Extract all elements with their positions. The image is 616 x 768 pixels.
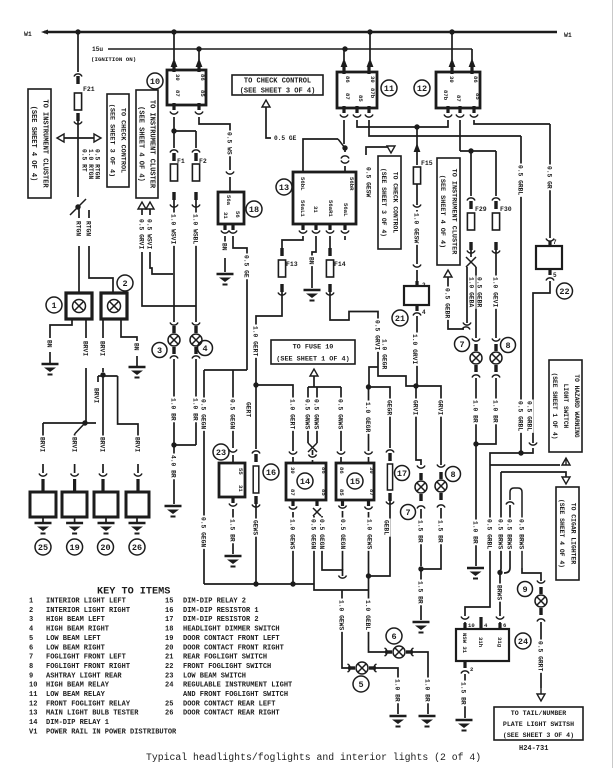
connector	[413, 265, 421, 268]
connector	[341, 156, 349, 159]
interior light right E2 bulb	[108, 300, 121, 313]
label 1.0 GERT	[252, 325, 259, 358]
connector	[280, 248, 283, 256]
wire BRVI rail	[43, 422, 96, 424]
connector	[386, 450, 394, 453]
item circle 8 upper	[501, 338, 516, 353]
svg-text:21: 21	[395, 314, 405, 324]
connector	[289, 452, 297, 455]
label 0.5 WSVI	[146, 218, 153, 251]
svg-text:0.5 GE: 0.5 GE	[243, 255, 250, 278]
label 0.5 GRBL	[517, 400, 524, 433]
label 1.0 GERT	[289, 398, 296, 431]
junction 15u/relay10-86	[196, 46, 201, 51]
svg-text:TO INSTRUMENT CLUSTER: TO INSTRUMENT CLUSTER	[449, 169, 457, 256]
connector	[339, 576, 347, 579]
connector	[546, 239, 554, 242]
lamp	[490, 352, 502, 364]
wire to door contact	[42, 464, 44, 473]
connector	[192, 323, 200, 326]
svg-text:0.5 GEGN: 0.5 GEGN	[339, 519, 346, 549]
wire to interior light left	[78, 246, 80, 293]
wire W1 to relay11-30	[369, 32, 371, 60]
ground lamp1	[42, 364, 59, 375]
svg-text:MAIN LIGHT BULB TESTER: MAIN LIGHT BULB TESTER	[46, 710, 139, 718]
ground dimmer switch	[217, 274, 234, 285]
svg-text:LOW BEAM SWITCH: LOW BEAM SWITCH	[183, 672, 246, 680]
svg-text:30: 30	[368, 467, 375, 474]
svg-text:0.5 BRWS: 0.5 BRWS	[518, 519, 525, 549]
pin	[301, 224, 304, 230]
splice with diagonal at interior feed	[70, 199, 86, 215]
wire 0.5 GRBL to lamp9 rail	[489, 465, 491, 560]
svg-text:TO FUSE 10: TO FUSE 10	[293, 343, 334, 351]
fuse F15	[413, 167, 420, 184]
item circle 9 ashtray light rear	[518, 582, 533, 597]
wire 0.5 GEGN long	[203, 370, 205, 584]
svg-text:(SEE SHEET 4 OF 4): (SEE SHEET 4 OF 4)	[438, 175, 446, 248]
svg-text:F14: F14	[334, 261, 346, 268]
ground door contact	[98, 523, 115, 534]
svg-text:V1: V1	[29, 728, 37, 736]
wire to ground	[224, 258, 226, 272]
wire to F2	[174, 130, 196, 132]
label 0.5 GRBL	[517, 164, 524, 197]
pin	[472, 106, 475, 113]
svg-text:56a: 56a	[225, 195, 232, 206]
item circle 1 interior light left	[46, 297, 62, 313]
connector	[365, 115, 373, 118]
ground low beam switch	[225, 556, 242, 567]
label BN	[46, 339, 53, 350]
connector	[170, 323, 178, 326]
junction on earth rail	[290, 581, 295, 586]
svg-text:0.5 GESW: 0.5 GESW	[365, 167, 372, 197]
wire to F30	[495, 151, 497, 196]
ref box to cigar lighter	[556, 487, 579, 580]
foglight lamp upper left	[474, 344, 477, 351]
label 0.5 GE	[243, 254, 250, 280]
label BN	[221, 242, 228, 253]
svg-text:GRVI: GRVI	[437, 400, 444, 415]
svg-text:0.5 GRBL: 0.5 GRBL	[486, 519, 493, 549]
connector	[546, 278, 554, 281]
connector	[221, 231, 229, 234]
label 1.0 GEWS	[289, 518, 296, 551]
wire	[85, 422, 86, 424]
svg-text:6: 6	[29, 644, 33, 652]
wire lamp2 BN	[121, 319, 137, 341]
svg-text:0.5 RT: 0.5 RT	[81, 149, 88, 172]
connector	[496, 617, 504, 620]
svg-text:2: 2	[422, 282, 426, 289]
label RTGN	[85, 220, 92, 238]
junction	[253, 581, 258, 586]
connector	[340, 115, 348, 118]
label BRVI	[99, 340, 106, 358]
wire to door contact	[102, 464, 104, 473]
label 0.5 GNWS	[337, 398, 344, 431]
connector	[229, 504, 237, 507]
svg-text:4.0 BR: 4.0 BR	[170, 455, 177, 478]
wire 1.5 BR	[232, 509, 234, 554]
svg-text:NSW 31: NSW 31	[461, 633, 468, 654]
wire into relay14	[292, 457, 294, 463]
svg-text:BRVI: BRVI	[70, 437, 77, 452]
label 1.5 BR	[229, 518, 236, 544]
wire 15u to relay11-86	[343, 49, 345, 60]
svg-text:31: 31	[222, 212, 229, 219]
pin	[415, 305, 418, 311]
item circle 15 inside relay	[347, 473, 363, 489]
wire RTGN branch right	[88, 210, 90, 218]
resistor R17 dim-dip resistor 2	[387, 464, 392, 490]
item circle 5 low beam left	[353, 676, 369, 692]
wire 1.0 BR	[173, 359, 175, 445]
svg-text:87: 87	[174, 90, 181, 97]
label 0.5 BRWS	[497, 518, 504, 551]
svg-text:KEY TO ITEMS: KEY TO ITEMS	[97, 587, 170, 598]
label BRVI	[39, 436, 46, 454]
svg-text:BRVI: BRVI	[82, 341, 89, 356]
svg-text:6: 6	[391, 632, 396, 642]
svg-text:FRONT FOGLIGHT SWITCH: FRONT FOGLIGHT SWITCH	[183, 663, 271, 671]
svg-text:16: 16	[165, 607, 173, 615]
ref box to hazard warning light switch	[549, 360, 582, 452]
svg-text:0.5 BRWS: 0.5 BRWS	[497, 519, 504, 549]
label 1.5 BR	[460, 681, 467, 707]
svg-text:DIM-DIP RELAY 2: DIM-DIP RELAY 2	[183, 598, 246, 606]
pin	[355, 106, 358, 113]
wire lamp2 BRVI	[102, 319, 104, 338]
svg-text:56aR1: 56aR1	[327, 200, 334, 217]
relay K14 dim-dip relay 1	[286, 463, 326, 500]
item circle 2 interior light right	[117, 275, 133, 291]
connector	[386, 502, 394, 505]
svg-text:0.5 GRRT: 0.5 GRRT	[537, 641, 544, 671]
wire GE rail	[204, 369, 247, 371]
svg-text:TO INSTRUMENT CLUSTER: TO INSTRUMENT CLUSTER	[148, 100, 156, 189]
connector	[170, 356, 178, 359]
svg-text:9: 9	[522, 585, 527, 595]
pin	[315, 500, 318, 506]
fuse F29	[467, 213, 474, 230]
connector	[385, 648, 388, 656]
front foglight switch S22	[536, 246, 562, 269]
arrow into relay11 pin86	[341, 58, 348, 67]
svg-text:31g: 31g	[496, 637, 503, 648]
svg-text:15: 15	[165, 598, 173, 606]
arrow to tail light switch	[537, 694, 545, 701]
lamp	[470, 352, 482, 364]
label 1.0 BR	[192, 397, 199, 423]
wire 0.5 GNWS b	[316, 387, 318, 443]
junction BR	[418, 566, 423, 571]
junction 15u/relay11-86	[342, 46, 347, 51]
ground reg switch	[456, 720, 473, 731]
wire F14 out 0.5 GRVI	[330, 291, 378, 367]
svg-text:1.0 BR: 1.0 BR	[492, 400, 499, 423]
wire 1.5 BR	[421, 508, 441, 569]
connector	[192, 356, 200, 359]
arrow into relay12 pin86	[469, 58, 476, 67]
wire to ground	[42, 517, 44, 522]
item circle 16 dim-dip resistor 1	[263, 464, 279, 480]
wire into pin10	[464, 622, 466, 629]
label 1.0 BR	[472, 399, 479, 425]
wire BRWS hook into junction	[504, 568, 510, 573]
label 0.5 WS	[226, 131, 233, 157]
connector	[326, 231, 334, 234]
connector	[494, 201, 497, 209]
svg-text:30: 30	[369, 76, 376, 83]
svg-text:INTERIOR LIGHT RIGHT: INTERIOR LIGHT RIGHT	[46, 607, 130, 615]
svg-text:15u: 15u	[92, 46, 103, 53]
wire WSVI jog to F1 wire	[150, 252, 173, 274]
svg-text:BRVI: BRVI	[39, 437, 46, 452]
wire earth rail 1	[204, 583, 314, 585]
svg-text:F21: F21	[83, 86, 95, 93]
svg-text:23: 23	[165, 672, 173, 680]
label 1.0 GRVI	[412, 333, 419, 366]
connector	[170, 150, 178, 153]
svg-text:RTGN: RTGN	[75, 221, 82, 236]
wire RTGN branch left	[78, 207, 80, 218]
svg-text:4: 4	[202, 344, 207, 354]
low beam switch S23	[219, 463, 245, 497]
label GEBL	[383, 519, 390, 537]
label 0.5 BRWS	[506, 518, 513, 551]
svg-text:1.0 GERT: 1.0 GERT	[289, 399, 296, 429]
svg-text:1.0 GEGR: 1.0 GEGR	[381, 339, 388, 369]
wire diagonal to junction 56b	[338, 139, 345, 148]
connector	[280, 284, 283, 292]
wire GRBL down	[490, 453, 521, 465]
svg-text:1.0 GEBA: 1.0 GEBA	[468, 277, 475, 307]
svg-text:8: 8	[505, 341, 510, 351]
connector	[492, 251, 500, 254]
svg-text:BRVI: BRVI	[99, 437, 106, 452]
svg-text:DOOR CONTACT FRONT RIGHT: DOOR CONTACT FRONT RIGHT	[183, 644, 284, 652]
svg-text:0.5 GEBR: 0.5 GEBR	[444, 288, 451, 318]
svg-text:1.0 BR: 1.0 BR	[170, 398, 177, 421]
connector	[99, 474, 107, 477]
wire GNWS bracket	[308, 386, 341, 388]
svg-text:25: 25	[38, 543, 48, 553]
svg-text:1.0 GEBL: 1.0 GEBL	[364, 600, 371, 630]
pin	[463, 623, 466, 630]
high beam left lamp	[172, 326, 175, 333]
door contact rear right S26	[126, 492, 149, 517]
connector	[192, 205, 200, 208]
wire relay10-85 0.5 WS	[199, 117, 230, 170]
svg-text:85: 85	[320, 489, 327, 496]
junction F1/F2	[171, 128, 176, 133]
connector	[437, 465, 445, 468]
svg-text:F1: F1	[177, 158, 185, 165]
svg-text:30: 30	[448, 76, 455, 83]
pin	[548, 269, 551, 275]
svg-text:AND FRONT FOGLIGHT SWITCH: AND FRONT FOGLIGHT SWITCH	[183, 691, 288, 699]
svg-text:1.0 GEWS: 1.0 GEWS	[338, 600, 345, 630]
connector	[254, 454, 257, 462]
wire GESW down	[416, 210, 418, 264]
arrow on F15 wire	[414, 143, 421, 152]
wire 1.0 BR to ground	[475, 444, 477, 566]
svg-text:18: 18	[165, 626, 173, 634]
wire 0.5 GEBR branch	[466, 267, 468, 323]
svg-text:16: 16	[266, 468, 276, 478]
pin	[341, 500, 344, 506]
svg-text:BN: BN	[221, 243, 228, 251]
arrow into relay10 pin30	[171, 58, 178, 67]
junction BRWS	[497, 570, 502, 575]
svg-text:0.5 GRVI: 0.5 GRVI	[374, 320, 381, 350]
svg-text:DOOR CONTACT REAR LEFT: DOOR CONTACT REAR LEFT	[183, 700, 275, 708]
wire to F29	[470, 151, 472, 196]
svg-text:5: 5	[358, 680, 363, 690]
item circle 7 upper	[455, 337, 470, 352]
fuse F1	[170, 164, 177, 181]
ground door contact	[129, 523, 146, 534]
label 1.0 GESW	[413, 212, 420, 245]
pin	[223, 224, 226, 230]
interior light left E1	[66, 293, 92, 319]
svg-text:1.0 GEWS: 1.0 GEWS	[289, 519, 296, 549]
wire 0.5 GNWS c	[340, 387, 342, 451]
svg-text:3: 3	[157, 346, 162, 356]
junction GRVI	[413, 383, 418, 388]
connector	[492, 375, 500, 378]
wire dimmer 0.5 GE	[233, 236, 247, 370]
pin	[197, 65, 200, 72]
wire 1.0 BR	[195, 359, 197, 445]
svg-text:1.0 WSVI: 1.0 WSVI	[170, 214, 177, 244]
label GEGR	[386, 399, 393, 417]
junction W1/relay10-30	[171, 29, 176, 34]
splice X GEBA/GEBR	[466, 257, 476, 267]
label GRVI	[412, 399, 419, 417]
svg-text:(SEE SHEET 3 OF 4): (SEE SHEET 3 OF 4)	[240, 88, 316, 96]
junction RTGN split	[75, 204, 80, 209]
svg-text:85: 85	[474, 93, 481, 100]
item circle 3 high beam left	[152, 343, 167, 358]
svg-text:F15: F15	[421, 160, 433, 167]
wire relay15-85 0.5 GEGN	[342, 511, 344, 570]
label 1.5 BR	[417, 580, 424, 606]
wire into relay15	[368, 457, 370, 463]
svg-text:10: 10	[150, 77, 160, 87]
svg-text:4: 4	[422, 309, 426, 316]
svg-text:0.5 GE: 0.5 GE	[274, 135, 297, 142]
wire F29 out	[470, 249, 472, 257]
ground door contact	[35, 523, 52, 534]
svg-text:1: 1	[51, 301, 56, 311]
svg-text:TO CHECK CONTROL: TO CHECK CONTROL	[119, 108, 127, 173]
connector	[229, 450, 237, 453]
svg-text:7: 7	[459, 340, 464, 350]
junction F29/F30	[468, 148, 473, 153]
label GEWS	[252, 519, 259, 537]
item circle 22 front foglight switch	[557, 283, 573, 299]
item circle 13 main light bulb tester	[276, 179, 292, 195]
junction F15 tap	[414, 124, 419, 129]
wire GRBL join	[521, 448, 533, 453]
label BN	[133, 342, 140, 353]
connector	[444, 115, 452, 118]
wire 1.5 BR	[420, 509, 422, 566]
connector	[194, 192, 197, 200]
wire GEBL to rail	[369, 500, 391, 576]
connector	[299, 231, 307, 234]
junction 56b	[342, 145, 347, 150]
connector	[470, 115, 478, 118]
wire BRWS to cigar lighter	[501, 472, 566, 477]
wire GRVI down and rail	[142, 252, 196, 306]
lamp	[415, 481, 427, 493]
svg-text:9: 9	[29, 672, 33, 680]
pin	[463, 661, 466, 668]
svg-text:26: 26	[132, 543, 142, 553]
wire BRVI to rail	[85, 368, 87, 423]
wire F21 out	[77, 121, 79, 138]
svg-text:GEBL: GEBL	[383, 520, 390, 535]
svg-text:TO CHECK CONTROL: TO CHECK CONTROL	[392, 172, 399, 234]
page edge line	[612, 0, 614, 768]
svg-text:(SEE SHEET 3 OF 4): (SEE SHEET 3 OF 4)	[380, 168, 387, 237]
svg-text:FOGLIGHT FRONT LEFT: FOGLIGHT FRONT LEFT	[46, 654, 126, 662]
junction W1/relay11-30	[367, 29, 372, 34]
label 1.0 BR	[472, 520, 479, 546]
svg-text:13: 13	[279, 183, 289, 193]
connector	[254, 496, 257, 504]
connector	[39, 474, 47, 477]
label 0.5 GRRT	[537, 640, 544, 673]
svg-text:23: 23	[216, 448, 226, 458]
svg-text:F2: F2	[199, 158, 207, 165]
connector	[353, 115, 361, 118]
label 1.0 GEBL	[365, 599, 372, 632]
wire BRVI to door contact 4	[118, 376, 138, 445]
item circle 8 foglight front right	[446, 467, 461, 482]
wire stub	[149, 209, 151, 215]
connector	[529, 443, 537, 446]
label 0.5 GEGN	[340, 518, 347, 551]
svg-text:31: 31	[312, 206, 319, 213]
label 0.5 GEGN	[229, 398, 236, 431]
wire GEGN to connector	[322, 516, 343, 576]
junction BR	[473, 441, 478, 446]
connector	[472, 339, 480, 342]
pin	[172, 103, 175, 110]
wire	[440, 463, 442, 465]
wire 1.0 GEBL to low beam right	[368, 576, 370, 646]
wire relay11-85 to relay12-87b	[357, 120, 448, 127]
svg-text:F30: F30	[500, 206, 512, 213]
lamp	[435, 480, 447, 492]
svg-text:19: 19	[165, 635, 173, 643]
label GERT	[245, 401, 252, 419]
wire	[520, 449, 522, 453]
label 1.0 GEGR	[381, 338, 388, 371]
wire 0.5 BRWS b	[509, 505, 511, 568]
wire bulb tester BN	[312, 236, 316, 288]
label 1.0 WSBL	[192, 213, 199, 246]
wire lamp1 BRVI	[85, 319, 87, 338]
svg-text:0.5 RTGN: 0.5 RTGN	[94, 149, 101, 179]
wire F15 out	[416, 184, 418, 205]
svg-text:DOOR CONTACT FRONT LEFT: DOOR CONTACT FRONT LEFT	[183, 635, 280, 643]
